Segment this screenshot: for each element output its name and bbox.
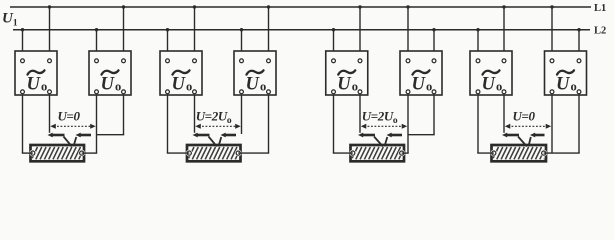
dashed voltage arrow U across pair 1 — [50, 124, 95, 129]
wire tap L1 to G7 terminal — [503, 7, 505, 59]
wire tap L2 to G6 terminal — [433, 30, 435, 59]
source box G5 (converter unit) — [326, 51, 368, 95]
svg-text:o: o — [115, 80, 121, 94]
wire line L2 — [13, 29, 590, 31]
connector arrow bar left of pair 2 — [193, 133, 210, 138]
connector arrow bar left of pair 3 — [358, 133, 375, 138]
wire tap L2 to G5 terminal — [333, 30, 335, 59]
svg-text:U: U — [101, 75, 116, 95]
junction dot on L1 at x=408.0 — [406, 5, 409, 8]
junction dot on L2 at x=478.0 — [476, 28, 479, 31]
wire tap L1 to G4 terminal — [268, 7, 270, 59]
G1 input terminal circles — [21, 59, 52, 63]
wire tap L2 to G1 terminal — [22, 30, 24, 59]
connector diagonal left of pair 1 — [64, 137, 72, 147]
G5 output terminal circles — [332, 90, 362, 94]
svg-text:U: U — [556, 75, 571, 95]
resistor R3 (load) — [351, 145, 405, 161]
G3 input terminal circles — [166, 59, 197, 63]
connector diagonal right of pair 1 — [74, 137, 77, 146]
resistor R1 (load) — [31, 145, 85, 161]
R3 terminal circles — [350, 150, 406, 157]
R1 terminal circles — [30, 150, 85, 157]
resistor R2 (load) — [187, 145, 241, 161]
wire tap L1 to G1 terminal — [49, 7, 51, 59]
svg-text:o: o — [352, 80, 358, 94]
svg-text:o: o — [426, 80, 432, 94]
G2 value label ~Uo — [101, 70, 122, 94]
junction dot on L1 at x=268.5 — [267, 5, 270, 8]
junction dot on L2 at x=96.5 — [95, 28, 98, 31]
G6 input terminal circles — [406, 59, 436, 63]
junction dot on L1 at x=49.5 — [48, 5, 51, 8]
junction dot on L1 at x=194.5 — [193, 5, 196, 8]
dashed voltage arrow U across pair 3 — [361, 124, 407, 129]
svg-text:o: o — [571, 80, 577, 94]
svg-text:o: o — [41, 80, 47, 94]
G7 output terminal circles — [476, 90, 506, 94]
connector arrow bar right of pair 1 — [76, 133, 92, 138]
R2 terminal circles — [186, 150, 242, 157]
svg-text:L1: L1 — [594, 3, 606, 14]
G1 value label ~Uo — [27, 70, 48, 94]
wire G8 left output down to bottom bus — [551, 95, 553, 153]
wire G3 left output down to R2 left terminal — [167, 95, 190, 153]
wire tap L2 to G4 terminal — [241, 30, 243, 59]
G1 output terminal circles — [21, 90, 52, 94]
wire tap L2 to G7 terminal — [477, 30, 479, 59]
connector arrow bar right of pair 4 — [530, 133, 545, 138]
svg-text:U=0: U=0 — [512, 109, 535, 124]
svg-text:U: U — [337, 75, 352, 95]
resistor R4 (load) — [492, 145, 547, 161]
wire tap L1 to G5 terminal — [359, 7, 361, 59]
source box G1 (converter unit) — [15, 51, 57, 95]
junction dot on L1 at x=123.5 — [122, 5, 125, 8]
junction dot on L2 at x=167.5 — [166, 28, 169, 31]
svg-text:U=2Uo: U=2Uo — [362, 109, 398, 127]
G7 value label ~Uo — [482, 70, 503, 94]
junction dot on L2 at x=579.0 — [577, 28, 580, 31]
wire tap L1 to G3 terminal — [194, 7, 196, 59]
svg-text:U: U — [246, 75, 261, 95]
svg-text:U: U — [482, 75, 497, 95]
connector arrow bar right of pair 2 — [221, 133, 237, 138]
wire G2 left output down to R1 right terminal — [82, 95, 98, 153]
wire G5 right output down to connector bar — [359, 95, 361, 133]
svg-text:o: o — [496, 80, 502, 94]
svg-text:U: U — [412, 75, 427, 95]
source box G3 (converter unit) — [160, 51, 202, 95]
R4 terminal circles — [491, 150, 548, 157]
junction dot on L1 at x=552.0 — [550, 5, 553, 8]
junction dot on L2 at x=241.5 — [240, 28, 243, 31]
wire tap L2 to G8 terminal — [578, 30, 580, 59]
junction dot on L2 at x=434.0 — [432, 28, 435, 31]
svg-text:U1: U1 — [2, 11, 18, 29]
svg-text:U: U — [27, 75, 42, 95]
wire G6 left output down to R3 right terminal — [402, 95, 409, 153]
wire G7 left output down to R4 left terminal — [477, 95, 494, 153]
G4 input terminal circles — [240, 59, 271, 63]
svg-text:U: U — [172, 75, 187, 95]
wire G5 left output down to R3 left terminal — [333, 95, 353, 153]
source box G2 (converter unit) — [89, 51, 131, 95]
connector arrow bar right of pair 3 — [387, 133, 403, 138]
wire line L1 — [10, 6, 591, 8]
G8 input terminal circles — [550, 59, 581, 63]
wire G4 right output down to R2 right terminal — [238, 95, 269, 153]
source box G8 (converter unit) — [545, 51, 587, 95]
svg-text:U=0: U=0 — [57, 109, 80, 124]
G8 output terminal circles — [550, 90, 581, 94]
wire G4 left output down to connector bar — [241, 95, 243, 134]
connector diagonal left of pair 3 — [374, 137, 383, 147]
connector arrow bar left of pair 1 — [48, 133, 65, 138]
G2 input terminal circles — [95, 59, 126, 63]
wire tap L2 to G3 terminal — [167, 30, 169, 59]
G4 output terminal circles — [240, 90, 271, 94]
svg-text:o: o — [186, 80, 192, 94]
wire crossover jog G6 right output — [408, 95, 435, 135]
G6 value label ~Uo — [412, 70, 433, 94]
wire G1 right output down to connector bar — [49, 95, 51, 133]
G7 input terminal circles — [476, 59, 506, 63]
source box G6 (converter unit) — [400, 51, 442, 95]
wire G7 right output down to connector bar — [503, 95, 505, 133]
connector arrow bar left of pair 4 — [502, 133, 519, 138]
G3 value label ~Uo — [172, 70, 193, 94]
svg-text:L2: L2 — [594, 26, 606, 37]
G6 output terminal circles — [406, 90, 436, 94]
G4 value label ~Uo — [246, 70, 267, 94]
dashed voltage arrow U across pair 4 — [505, 124, 551, 129]
connector diagonal right of pair 2 — [219, 137, 222, 146]
junction dot on L2 at x=333.5 — [332, 28, 335, 31]
junction dot on L2 at x=22.5 — [21, 28, 24, 31]
connector diagonal left of pair 4 — [518, 137, 527, 147]
source box G7 (converter unit) — [470, 51, 512, 95]
svg-text:U=2Uo: U=2Uo — [196, 109, 232, 127]
G5 input terminal circles — [332, 59, 362, 63]
wire tap L1 to G6 terminal — [407, 7, 409, 59]
G3 output terminal circles — [166, 90, 197, 94]
wire tap L2 to G2 terminal — [96, 30, 98, 59]
junction dot on L1 at x=504.0 — [502, 5, 505, 8]
G8 value label ~Uo — [556, 70, 577, 94]
connector diagonal left of pair 2 — [209, 137, 217, 147]
G5 value label ~Uo — [337, 70, 358, 94]
svg-text:o: o — [260, 80, 266, 94]
source box G4 (converter unit) — [234, 51, 276, 95]
wire tap L1 to G8 terminal — [551, 7, 553, 59]
connector diagonal right of pair 4 — [529, 137, 531, 146]
wire crossover jog G2 right output — [97, 95, 125, 135]
wire G3 right output down to connector bar — [194, 95, 196, 133]
wire bottom bus to R4 right terminal — [544, 152, 580, 154]
junction dot on L1 at x=360.0 — [358, 5, 361, 8]
connector diagonal right of pair 3 — [385, 137, 388, 146]
dashed voltage arrow U across pair 2 — [195, 124, 240, 129]
wire tap L1 to G2 terminal — [123, 7, 125, 59]
wire G8 right output down to bottom bus — [578, 95, 580, 153]
G2 output terminal circles — [95, 90, 126, 94]
wire G1 left output down to R1 left terminal — [22, 95, 33, 153]
